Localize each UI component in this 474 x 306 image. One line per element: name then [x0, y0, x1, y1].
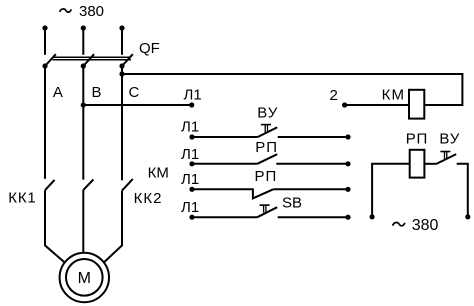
node: row 4 right terminal — [345, 187, 350, 192]
svg-text:Л1: Л1 — [181, 146, 199, 163]
node: terminal 2 — [342, 102, 347, 107]
label ~380 (bottom right) — [393, 217, 439, 234]
wire: phase C down to motor — [104, 191, 122, 263]
svg-text:КМ: КМ — [382, 87, 406, 104]
svg-text:QF: QF — [139, 40, 160, 57]
wire: phase A supply lead — [44, 28, 46, 55]
svg-text:РП: РП — [255, 168, 278, 185]
node: row 3 right terminal — [345, 161, 350, 166]
svg-text:ВУ: ВУ — [439, 131, 460, 148]
svg-text:Л1: Л1 — [184, 87, 202, 104]
circuit breaker QF pole 2 blade — [83, 54, 94, 66]
svg-text:380: 380 — [79, 3, 104, 20]
circuit breaker QF tie bar — [53, 57, 132, 59]
svg-text:КК2: КК2 — [134, 190, 163, 207]
svg-text:КМ: КМ — [148, 164, 169, 181]
wire: phase B down to motor — [82, 190, 84, 253]
wire: VU contact to right terminal — [457, 164, 468, 217]
node L1 row 5 — [189, 215, 194, 220]
wire: phase A down to motor — [45, 190, 65, 262]
node: phase A supply terminal — [42, 25, 47, 30]
wire: row 5 right lead — [278, 216, 348, 218]
node: row 2 right terminal — [345, 134, 350, 139]
svg-text:РП: РП — [255, 139, 278, 156]
contact VU (row 2, NO with pushbutton actuator) — [258, 125, 278, 137]
svg-text:SB: SB — [282, 195, 302, 212]
node: phase B supply terminal — [81, 25, 86, 30]
wire: phase C to KM coil right side (top-right run) — [122, 74, 462, 105]
pushbutton SB (row 5, NO) — [257, 205, 277, 217]
wire: row 4 left lead — [192, 188, 253, 190]
wire: row 5 left lead — [192, 216, 257, 218]
svg-text:РП: РП — [406, 131, 428, 148]
node: RP branch right terminal — [465, 214, 470, 219]
svg-text:КК1: КК1 — [8, 189, 36, 206]
contactor KM main contact pole 1 — [45, 180, 55, 190]
svg-text:ВУ: ВУ — [257, 104, 278, 121]
svg-text:М: М — [78, 270, 91, 287]
contactor KM main contact pole 3 — [122, 179, 133, 191]
contact VU (bottom right, NO with pushbutton actuator) — [436, 152, 456, 165]
node L1 row 1 — [189, 102, 194, 107]
contact RP (row 4, normally closed) — [253, 188, 273, 198]
circuit breaker QF pole 1 blade — [45, 54, 56, 66]
svg-text:B: B — [92, 84, 102, 101]
node: junction on phase C feeding control top wire — [119, 71, 124, 76]
wire: row 4 right lead — [273, 188, 348, 190]
wire: phase B supply lead — [82, 28, 84, 55]
relay coil RP — [410, 150, 425, 178]
node: RP branch left terminal — [370, 214, 375, 219]
wire: RP branch left — [372, 164, 410, 217]
contact RP (row 3, normally open) — [257, 154, 277, 164]
svg-text:Л1: Л1 — [181, 119, 199, 136]
node: row 5 right terminal — [345, 215, 350, 220]
node L1 row 3 — [189, 161, 194, 166]
svg-text:A: A — [53, 84, 63, 101]
wire: row 2 right lead — [278, 136, 348, 138]
node: phase C supply terminal — [119, 25, 124, 30]
wire: phase B to node L1 (row 1) — [83, 104, 191, 106]
wire: row 2 left lead — [192, 136, 258, 138]
motor M outer circle — [60, 253, 109, 302]
node: junction on phase B feeding node L1 — [81, 102, 86, 107]
contactor coil KM — [409, 90, 424, 119]
wire: phase C conductor below QF — [121, 66, 123, 180]
circuit breaker QF pole 3 blade — [122, 54, 133, 66]
motor M inner circle — [66, 259, 103, 296]
node L1 row 4 — [189, 187, 194, 192]
svg-text:C: C — [129, 84, 140, 101]
wire: row 3 right lead — [276, 163, 348, 165]
wire: terminal 2 to KM coil — [345, 104, 409, 106]
wire: row 3 left lead — [192, 163, 257, 165]
label ~380 supply (top) — [60, 3, 105, 20]
contactor KM main contact pole 2 — [83, 180, 93, 190]
wire: phase A conductor below QF — [44, 66, 46, 179]
svg-text:380: 380 — [412, 217, 439, 234]
svg-text:Л1: Л1 — [181, 171, 199, 188]
wire: RP coil to VU contact — [424, 163, 436, 165]
node L1 row 2 — [189, 134, 194, 139]
svg-text:Л1: Л1 — [181, 199, 199, 216]
wire: phase B conductor below QF — [82, 66, 84, 180]
wire: phase C supply lead — [121, 28, 123, 55]
svg-text:2: 2 — [330, 87, 338, 104]
